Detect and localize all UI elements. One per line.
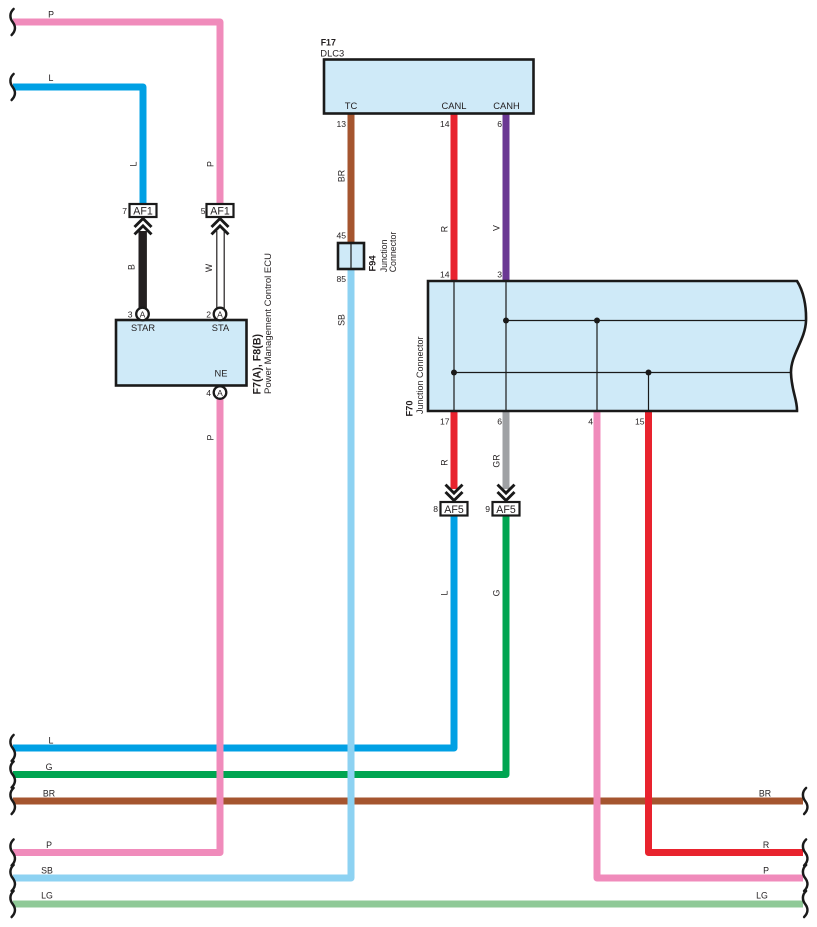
squiggle left G row bbox=[10, 762, 15, 788]
svg-text:13: 13 bbox=[336, 119, 346, 129]
svg-text:5: 5 bbox=[201, 206, 206, 216]
svg-text:P: P bbox=[206, 161, 216, 167]
connector AF5 pin9 bbox=[493, 502, 520, 516]
svg-text:STAR: STAR bbox=[131, 323, 155, 333]
svg-text:6: 6 bbox=[497, 119, 502, 129]
svg-text:R: R bbox=[763, 840, 769, 850]
wire P from ECU pin 4 down to bottom-left row (pink) bbox=[13, 399, 220, 853]
connector F17 DLC3 box bbox=[324, 60, 534, 114]
wire L row bottom horizontal + vertical from AF5 pin8 (blue) bbox=[13, 516, 454, 748]
svg-text:85: 85 bbox=[336, 274, 346, 284]
svg-text:L: L bbox=[440, 590, 450, 595]
svg-text:B: B bbox=[127, 264, 137, 270]
squiggle right P row bbox=[803, 865, 808, 891]
wire G row bottom horizontal + vertical from AF5 pin9 (green) bbox=[13, 516, 506, 775]
svg-text:DLC3: DLC3 bbox=[320, 48, 344, 59]
wire L top-left horizontal to AF1 pin7 (blue) bbox=[13, 87, 143, 204]
connector F94 junction connector box bbox=[338, 243, 364, 269]
svg-text:R: R bbox=[440, 226, 450, 232]
svg-text:AF1: AF1 bbox=[133, 206, 153, 218]
svg-text:STA: STA bbox=[212, 323, 230, 333]
wire P from F70 pin 4 down to bottom-right row (pink) bbox=[597, 411, 803, 878]
svg-text:F94: F94 bbox=[368, 255, 378, 272]
svg-text:3: 3 bbox=[497, 270, 502, 280]
svg-text:F7(A), F8(B): F7(A), F8(B) bbox=[252, 334, 264, 395]
squiggle left BR row bbox=[10, 788, 15, 814]
svg-text:3: 3 bbox=[128, 310, 133, 320]
wire P top-left horizontal to AF1 pin5 (pink) bbox=[13, 22, 220, 204]
squiggle left P row bbox=[10, 840, 15, 866]
svg-text:14: 14 bbox=[440, 119, 450, 129]
wire R from DLC3 CANL pin14 to F70 pin14 (red) bbox=[451, 114, 458, 281]
squiggle left SB row bbox=[10, 865, 15, 891]
svg-text:A: A bbox=[217, 388, 223, 398]
squiggle left P top bbox=[10, 9, 15, 35]
svg-text:Junction Connector: Junction Connector bbox=[415, 336, 425, 414]
wire R from F70 pin17 to AF5 pin8 (red) bbox=[451, 411, 458, 489]
F70 internal bus lines bbox=[453, 281, 455, 411]
wire W from ECU pin2 to AF1 pin5 (white with black outline) bbox=[216, 231, 225, 308]
wire R from F70 pin 15 down to bottom-right row (red) bbox=[649, 411, 804, 853]
connector arrow AF5 pin9 bbox=[498, 485, 515, 501]
svg-text:L: L bbox=[49, 736, 54, 746]
svg-text:LG: LG bbox=[756, 891, 768, 901]
svg-text:9: 9 bbox=[485, 504, 490, 514]
connector arrow AF1 pin7 bbox=[135, 219, 152, 235]
connector arrow AF1 pin5 bbox=[212, 219, 229, 235]
svg-text:CANL: CANL bbox=[441, 100, 466, 111]
squiggle right R row bbox=[803, 840, 808, 866]
svg-text:7: 7 bbox=[122, 206, 127, 216]
ECU box bbox=[116, 320, 247, 386]
squiggle left L row bbox=[10, 735, 15, 761]
squiggle right BR row bbox=[803, 788, 808, 814]
squiggle left LG row bbox=[10, 891, 15, 917]
svg-text:F70: F70 bbox=[405, 400, 415, 416]
svg-text:8: 8 bbox=[433, 504, 438, 514]
svg-text:G: G bbox=[46, 762, 53, 772]
svg-text:Power Management Control ECU: Power Management Control ECU bbox=[263, 253, 274, 394]
circle connector A pin2 bbox=[214, 308, 227, 321]
svg-text:TC: TC bbox=[345, 100, 358, 111]
circle connector A pin4 bbox=[214, 386, 227, 399]
svg-text:CANH: CANH bbox=[493, 100, 520, 111]
svg-text:P: P bbox=[46, 840, 52, 850]
svg-text:P: P bbox=[48, 10, 54, 20]
svg-text:14: 14 bbox=[440, 270, 450, 280]
svg-text:G: G bbox=[492, 589, 502, 596]
svg-text:2: 2 bbox=[206, 310, 211, 320]
wire GR from F70 pin6 to AF5 pin9 (gray) bbox=[503, 411, 510, 489]
wire BR row bottom horizontal (brown) bbox=[13, 798, 803, 805]
squiggle left L top bbox=[10, 74, 15, 100]
svg-text:V: V bbox=[492, 225, 502, 231]
svg-text:BR: BR bbox=[43, 789, 55, 799]
connector AF5 pin8 bbox=[441, 502, 468, 516]
svg-text:R: R bbox=[440, 459, 450, 465]
svg-text:A: A bbox=[140, 309, 146, 319]
svg-text:4: 4 bbox=[206, 388, 211, 398]
wire SB from F94 pin 85 down to bottom-left row (light blue) bbox=[13, 269, 351, 878]
svg-text:LG: LG bbox=[41, 891, 53, 901]
wire V from DLC3 CANH pin6 to F70 pin3 (violet) bbox=[503, 114, 510, 281]
junction dots bbox=[503, 318, 509, 324]
svg-text:BR: BR bbox=[759, 789, 771, 799]
connector AF1 pin5 bbox=[207, 204, 234, 217]
connector AF1 pin7 bbox=[130, 204, 157, 217]
svg-text:AF1: AF1 bbox=[210, 206, 230, 218]
svg-text:GR: GR bbox=[492, 454, 502, 467]
svg-text:Connector: Connector bbox=[388, 232, 398, 273]
svg-text:P: P bbox=[206, 434, 216, 440]
wire B from ECU pin3 to AF1 pin7 (black) bbox=[138, 231, 146, 308]
svg-text:W: W bbox=[204, 263, 214, 272]
svg-text:4: 4 bbox=[588, 417, 593, 427]
svg-text:P: P bbox=[763, 866, 769, 876]
svg-text:AF5: AF5 bbox=[444, 504, 464, 516]
circle connector A pin3 bbox=[136, 308, 149, 321]
svg-text:F17: F17 bbox=[321, 38, 336, 48]
connector arrow AF5 pin8 bbox=[446, 485, 463, 501]
svg-text:A: A bbox=[217, 309, 223, 319]
svg-text:L: L bbox=[129, 161, 139, 166]
svg-text:AF5: AF5 bbox=[496, 504, 516, 516]
squiggle right LG row bbox=[803, 891, 808, 917]
connector F70 junction connector box bbox=[428, 281, 806, 411]
wire LG row bottom horizontal (light green) bbox=[13, 901, 803, 908]
svg-text:15: 15 bbox=[635, 417, 645, 427]
svg-text:SB: SB bbox=[41, 866, 53, 876]
svg-text:NE: NE bbox=[215, 369, 228, 379]
svg-text:6: 6 bbox=[497, 417, 502, 427]
wire BR from DLC3 TC pin13 to F94 pin45 (brown) bbox=[348, 114, 355, 243]
svg-text:L: L bbox=[49, 73, 54, 83]
svg-text:BR: BR bbox=[337, 170, 347, 182]
svg-text:45: 45 bbox=[336, 231, 346, 241]
svg-text:SB: SB bbox=[337, 314, 347, 326]
svg-text:17: 17 bbox=[440, 417, 450, 427]
